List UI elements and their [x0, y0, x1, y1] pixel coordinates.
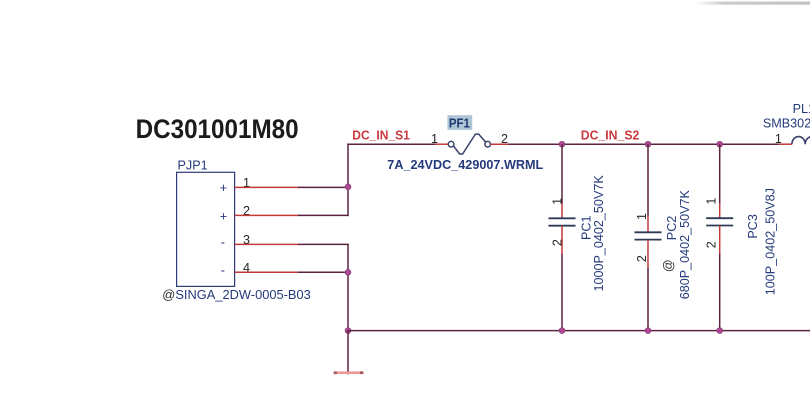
- svg-text:2: 2: [635, 255, 649, 262]
- junction bottom rail at PC3: [717, 328, 723, 334]
- fuse PF1 symbol left terminal circle: [448, 141, 454, 147]
- wire PC3 lower vertical: [719, 254, 721, 331]
- svg-text:+: +: [220, 210, 227, 224]
- wire pin4 to node B: [298, 271, 348, 273]
- svg-text:7A_24VDC_429007.WRML: 7A_24VDC_429007.WRML: [387, 158, 543, 172]
- pin stub fuse PF1 pin1 (red): [435, 143, 448, 145]
- capacitor PC3 plates: [706, 218, 733, 225]
- junction bottom rail at PC1: [559, 328, 565, 334]
- junction top rail at PC1: [559, 141, 565, 147]
- svg-text:2: 2: [704, 241, 718, 248]
- pin stub inductor PL1 pin1 (red): [779, 143, 792, 145]
- wire pin3 to node B: [298, 243, 349, 245]
- junction node pin1: [345, 184, 351, 190]
- inductor PL1 coil: [792, 137, 810, 145]
- pin stub PC3 pin2 (red): [719, 226, 721, 256]
- pin stub pin1 PJP1 (red): [235, 186, 299, 188]
- capacitor PC1 plates: [549, 218, 576, 225]
- svg-text:100P_0402_50V8J: 100P_0402_50V8J: [763, 188, 777, 295]
- wire top rail DC_IN_S1 segment to fuse: [347, 143, 436, 145]
- ground symbol left end mark: [334, 371, 337, 374]
- svg-text:1: 1: [551, 198, 565, 205]
- svg-text:1: 1: [635, 213, 649, 220]
- svg-text:DC_IN_S2: DC_IN_S2: [581, 129, 640, 143]
- pin stub PC1 pin1 (red): [561, 203, 563, 218]
- fuse PF1 symbol zigzag element: [454, 134, 486, 154]
- svg-text:1: 1: [775, 132, 782, 146]
- pin stub PC1 pin2 (red): [561, 226, 563, 255]
- svg-text:@: @: [662, 259, 676, 272]
- wire PC2 lower vertical: [647, 268, 649, 331]
- fuse PF1 highlight: [447, 115, 472, 130]
- pin stub PC2 pin1 (red): [647, 216, 649, 233]
- svg-text:PC2: PC2: [665, 216, 679, 241]
- ground symbol right end mark: [360, 371, 363, 374]
- svg-text:1: 1: [704, 198, 718, 205]
- connector PJP1 body: [177, 172, 235, 286]
- svg-text:1: 1: [431, 132, 438, 146]
- wire vertical net DC_IN_S1 (pins 1,2 up to top rail): [347, 144, 349, 217]
- pin stub pin2 PJP1 (red): [235, 214, 299, 216]
- svg-text:DC301001M80: DC301001M80: [136, 114, 299, 144]
- wire PC1 lower vertical: [561, 254, 563, 331]
- svg-text:DC_IN_S1: DC_IN_S1: [352, 129, 410, 143]
- junction node pin4: [345, 269, 351, 275]
- svg-text:680P_0402_50V7K: 680P_0402_50V7K: [678, 189, 692, 299]
- wire top rail DC_IN_S2 from fuse to PL1: [508, 143, 779, 145]
- fuse PF1 symbol right terminal circle: [485, 141, 491, 147]
- junction node ground rail: [345, 328, 351, 334]
- wire ground stem: [347, 331, 349, 375]
- svg-text:1000P_0402_50V7K: 1000P_0402_50V7K: [592, 175, 606, 292]
- pin stub pin4 PJP1 (red): [235, 271, 299, 273]
- svg-text:PL1: PL1: [793, 102, 810, 116]
- pin stub pin3 PJP1 (red): [235, 243, 299, 245]
- svg-text:+: +: [220, 181, 227, 195]
- wire bottom ground rail: [347, 330, 810, 332]
- pin stub fuse PF1 pin2 (red): [491, 143, 510, 145]
- svg-text:PF1: PF1: [449, 117, 470, 131]
- svg-text:2: 2: [551, 239, 565, 246]
- pin stub PC3 pin1 (red): [719, 203, 721, 218]
- wire vertical ground net (pins 3,4 down to bottom rail): [347, 244, 349, 331]
- svg-text:SMB3020-2: SMB3020-2: [763, 117, 810, 131]
- wire PC2 upper vertical: [647, 144, 649, 216]
- svg-text:PJP1: PJP1: [178, 158, 208, 172]
- wire pin1 to node A: [298, 186, 348, 188]
- svg-text:@SINGA_2DW-0005-B03: @SINGA_2DW-0005-B03: [162, 288, 310, 302]
- wire PC1 upper vertical: [561, 144, 563, 204]
- pin stub PC2 pin2 (red): [647, 240, 649, 269]
- ground symbol bar: [334, 371, 364, 374]
- wire PC3 upper vertical: [719, 144, 721, 204]
- capacitor PC2 plates: [635, 232, 662, 239]
- junction top rail at PC3: [717, 141, 723, 147]
- window edge artifact top right: [694, 2, 810, 5]
- svg-text:-: -: [221, 235, 225, 249]
- junction bottom rail at PC2: [645, 328, 651, 334]
- junction top rail at PC2: [645, 141, 651, 147]
- svg-text:-: -: [221, 263, 225, 277]
- wire pin2 to node A: [298, 214, 349, 216]
- svg-text:PC3: PC3: [746, 214, 760, 239]
